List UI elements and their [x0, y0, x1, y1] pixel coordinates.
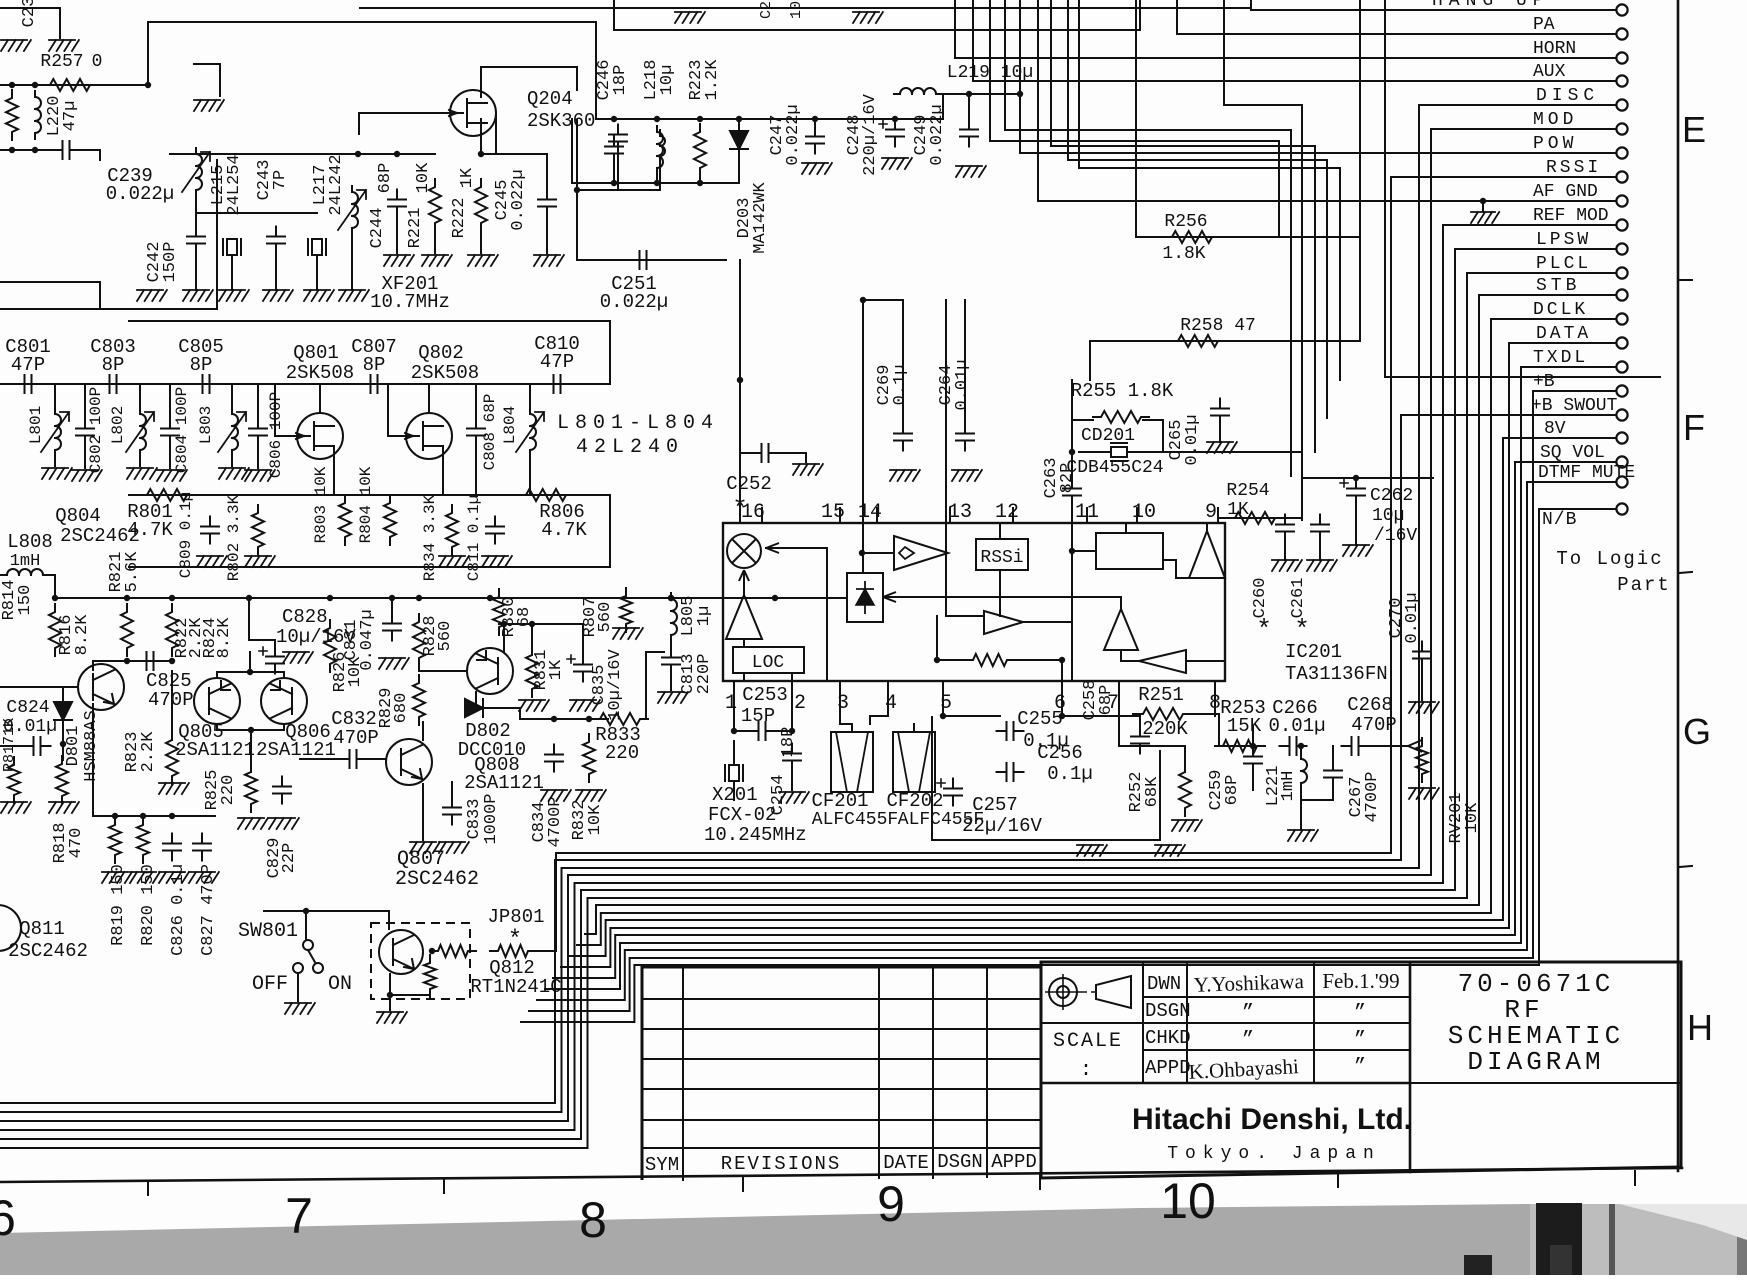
ground top box 1	[675, 12, 705, 23]
ground lowleft 172	[159, 872, 189, 883]
white wedge right	[1620, 1204, 1747, 1240]
wire L803 stub	[231, 384, 233, 412]
ground lowleft 143	[130, 872, 160, 883]
border tick bottom 7-8	[443, 1179, 445, 1193]
wire c253 left	[734, 730, 752, 732]
wire l221 gnd	[1300, 800, 1302, 830]
svg-text:R834 3.3K: R834 3.3K	[421, 494, 439, 581]
svg-text:DSGN: DSGN	[1145, 1000, 1191, 1022]
inductor L220	[35, 91, 41, 139]
svg-text:DTMF MUTE: DTMF MUTE	[1538, 463, 1635, 483]
svg-text:10µ/16V: 10µ/16V	[606, 649, 625, 721]
resistor R253	[1215, 740, 1265, 752]
wire C249 stub	[968, 94, 970, 124]
svg-text:2: 2	[794, 692, 806, 715]
resistor R819	[109, 817, 121, 863]
bus vertical 8V	[1502, 438, 1504, 920]
svg-text:Q801: Q801	[293, 342, 339, 364]
IC201 top pin stub x1013	[1012, 508, 1014, 523]
wire C828 top	[249, 598, 275, 650]
wire L802 stub	[139, 384, 141, 412]
svg-text:TXDL: TXDL	[1533, 348, 1588, 368]
ground L802	[127, 468, 157, 479]
svg-text:*: *	[1256, 615, 1272, 645]
junction C248	[892, 116, 898, 122]
wire q812 bottom	[390, 974, 430, 995]
box R80x bottom	[129, 566, 610, 568]
resistor R820	[137, 817, 149, 863]
wire PA	[1177, 33, 1615, 35]
wire C833 top	[451, 782, 453, 801]
svg-text:0.01µ: 0.01µ	[1268, 715, 1325, 737]
junction L220 low a	[9, 147, 15, 153]
svg-text:+B: +B	[1533, 372, 1555, 392]
title block title cell divider	[1410, 1082, 1681, 1084]
svg-text:C804 100P: C804 100P	[173, 387, 191, 473]
capacitor C813	[662, 648, 680, 675]
wire cap254b v	[1319, 517, 1321, 519]
svg-text:C824: C824	[6, 698, 49, 718]
ground C262	[1343, 545, 1373, 556]
ground C270	[1409, 702, 1439, 713]
svg-text:10.245MHz: 10.245MHz	[704, 824, 807, 846]
wire DATA horiz	[1509, 342, 1615, 344]
junction rail d	[736, 116, 742, 122]
capacitor C266	[1280, 737, 1307, 755]
terminal TXDL	[1616, 361, 1627, 372]
ground C828	[283, 652, 313, 663]
wire CD201 wires	[1079, 451, 1109, 453]
capacitor C246	[605, 137, 623, 164]
terminal 8V	[1616, 432, 1627, 443]
svg-text:18P: 18P	[611, 65, 630, 96]
bus vertical DCLK	[1490, 319, 1492, 913]
wire Q807 collector	[422, 722, 424, 740]
wire C252 up	[739, 380, 741, 453]
svg-text:HORN: HORN	[1533, 39, 1576, 59]
wire Q805-Q806 bot	[217, 724, 284, 730]
wire R257 to top rail	[148, 22, 596, 85]
IC201 top pin stub x840	[839, 508, 841, 523]
capacitor C831	[383, 614, 401, 641]
bus fan line jp801	[556, 853, 1391, 951]
ground R252	[1155, 845, 1185, 856]
terminal STB	[1616, 289, 1627, 300]
wire nb in	[1186, 660, 1225, 662]
wire r252 v	[1184, 746, 1186, 772]
resistor R824	[166, 604, 178, 656]
terminal PA	[1616, 28, 1627, 39]
resistor R257	[42, 79, 98, 91]
title block h row dwn	[1143, 996, 1410, 998]
wire c267 link	[1301, 783, 1333, 800]
wire C252 left	[740, 452, 755, 454]
border tick bottom 8-9	[742, 1177, 744, 1191]
svg-text:To Logic: To Logic	[1556, 548, 1663, 570]
resistor R833	[592, 713, 648, 725]
diode D801	[54, 702, 72, 720]
svg-text:Q802: Q802	[418, 342, 464, 364]
wire CF202 in	[913, 724, 915, 732]
wire c258 v	[1139, 716, 1141, 730]
svg-text:C261: C261	[1289, 578, 1308, 619]
ground R817	[1, 802, 31, 813]
wire C262 d	[1355, 502, 1357, 545]
IC201 quad block	[1096, 533, 1163, 569]
capacitor C809	[201, 517, 219, 544]
wire top rail down	[595, 22, 597, 119]
border tick bottom 9-10	[1039, 1175, 1041, 1189]
bus fan line +B SWOUT	[0, 860, 1401, 1103]
wire C252 right	[775, 453, 806, 462]
junction lower rail b	[654, 180, 660, 186]
svg-text:470P: 470P	[333, 727, 379, 749]
capacitor C833	[443, 798, 461, 825]
LOC box	[733, 647, 804, 673]
junction det in	[859, 550, 865, 556]
svg-text:10.7MHz: 10.7MHz	[370, 291, 450, 313]
svg-text:Part: Part	[1617, 574, 1671, 596]
svg-text:1K: 1K	[458, 167, 477, 188]
junction fb a	[934, 657, 940, 663]
wire audio in step	[946, 523, 984, 616]
resistor R806	[518, 489, 574, 501]
scanner artifact dark square	[1464, 1255, 1492, 1275]
capacitor cap254a	[1276, 515, 1294, 542]
svg-text:Feb.1.'99: Feb.1.'99	[1322, 969, 1399, 993]
junction C269	[860, 297, 866, 303]
wire TXDL horiz	[1521, 366, 1615, 368]
wire R255 right	[1143, 419, 1163, 421]
capacitor C804	[161, 419, 179, 446]
svg-text:C262: C262	[1370, 486, 1413, 506]
ground C834	[541, 790, 571, 801]
wire xf to C244	[358, 153, 435, 155]
svg-text:4700P: 4700P	[1363, 771, 1382, 822]
ground R823	[159, 783, 189, 794]
svg-text:1mH: 1mH	[1279, 771, 1298, 802]
wire pin5 row	[943, 715, 1000, 717]
title block h row appd	[1041, 1082, 1410, 1085]
junction amp rail x330	[327, 595, 333, 601]
svg-text:220: 220	[219, 775, 238, 806]
ground xf a	[219, 290, 249, 301]
svg-text::: :	[1080, 1059, 1092, 1082]
wire xf stub a	[231, 255, 233, 290]
wire SQ VOL horiz	[1515, 461, 1615, 463]
svg-text:15K: 15K	[1227, 715, 1262, 737]
mixer arrowhead	[766, 543, 779, 553]
wire JP801 out	[533, 950, 556, 952]
svg-text:15P: 15P	[741, 705, 775, 727]
wire limiter drop	[1120, 597, 1122, 609]
amp noise triangle	[1104, 609, 1138, 650]
wire Q204 gate stub	[358, 113, 360, 134]
wire R258 drop	[1089, 341, 1091, 380]
wire pin12 inner	[999, 523, 1001, 539]
rev table col sym	[682, 967, 684, 1180]
wire Q204 drain box	[481, 67, 577, 97]
svg-text:8.2K: 8.2K	[215, 617, 234, 659]
wire q804 collector	[92, 661, 94, 670]
wire C806 stub	[257, 384, 259, 422]
ground xf left	[137, 290, 167, 301]
svg-text:C252: C252	[726, 473, 772, 495]
wire STB horiz	[1479, 294, 1615, 296]
scanner gray band at bottom	[0, 1204, 1747, 1275]
capacitor C270	[1413, 642, 1431, 669]
ground L221	[1288, 830, 1318, 841]
wire left lower	[0, 282, 100, 309]
capacitor C834	[545, 745, 563, 772]
svg-text:47P: 47P	[11, 354, 45, 376]
ground C833	[439, 842, 469, 853]
top bus elbow d	[1068, 0, 1327, 418]
svg-text:15: 15	[821, 501, 845, 524]
svg-text:”: ”	[1354, 1002, 1366, 1025]
wire L801 gnd	[54, 452, 56, 466]
wire rssi down	[999, 570, 1001, 616]
junction lower rail c	[697, 180, 703, 186]
ground Q807	[410, 842, 440, 853]
svg-text:2SK360: 2SK360	[527, 110, 595, 132]
bus vertical TXDL	[1520, 367, 1522, 943]
svg-text:2SA1121: 2SA1121	[175, 739, 255, 761]
svg-text:10K: 10K	[1463, 802, 1482, 833]
wire N/B horiz	[1539, 508, 1615, 510]
svg-text:ALFC455F: ALFC455F	[812, 810, 898, 830]
junction R222	[478, 151, 484, 157]
wire pin16 up	[739, 260, 741, 523]
ground Q812	[377, 1012, 407, 1023]
wire quad to if	[1163, 560, 1189, 578]
wire Q801 gate in	[275, 384, 297, 436]
svg-text:0.022µ: 0.022µ	[784, 104, 803, 165]
svg-text:Tokyo. Japan: Tokyo. Japan	[1167, 1144, 1381, 1164]
top bus elbow e	[1079, 0, 1340, 380]
terminal +B	[1616, 385, 1627, 396]
wire Q801 drain	[319, 384, 321, 413]
wire R223 stub	[699, 172, 701, 183]
svg-text:CD201: CD201	[1081, 426, 1135, 446]
resistor R256	[1164, 231, 1220, 243]
wire R257 rail	[0, 84, 148, 86]
svg-text:10µ: 10µ	[658, 65, 677, 96]
svg-text:2SK508: 2SK508	[286, 362, 354, 384]
svg-text:1µ: 1µ	[695, 606, 714, 626]
wire R833 out	[643, 652, 664, 719]
capacitor C252	[752, 444, 779, 462]
resistor R-left	[6, 90, 18, 140]
svg-text:10µ: 10µ	[1372, 506, 1404, 526]
terminal N/B	[1616, 503, 1627, 514]
resistor R252	[1179, 764, 1191, 816]
wire C246 rail	[596, 118, 943, 120]
wire chain box right	[609, 321, 611, 384]
wire amp rail	[55, 597, 847, 599]
ground xf d	[339, 290, 369, 301]
junction r832 row	[586, 716, 592, 722]
svg-text:C256: C256	[1037, 742, 1083, 764]
rev table row 5	[642, 1119, 1041, 1121]
transistor Q801	[296, 413, 343, 459]
wire if apex	[1206, 523, 1208, 531]
svg-text:13: 13	[948, 501, 972, 524]
svg-text:9: 9	[1205, 501, 1217, 524]
svg-text:”: ”	[1354, 1029, 1366, 1052]
capacitor C827	[193, 834, 211, 861]
wire fb a up	[936, 616, 938, 660]
ground lowleft 202	[189, 872, 219, 883]
ground C247	[802, 163, 832, 174]
svg-text:LOC: LOC	[752, 653, 785, 673]
transistor Q807	[386, 739, 432, 785]
wire L219 rail	[943, 93, 1020, 95]
bus vertical STB	[1478, 295, 1480, 905]
wire Q204 gate	[359, 112, 450, 114]
wire mixer arrow drop	[826, 548, 828, 681]
wire DTMF MUTE horiz	[1527, 481, 1615, 483]
svg-text:68K: 68K	[1143, 776, 1162, 807]
svg-text:C268: C268	[1347, 694, 1393, 716]
wire c259 d	[1252, 770, 1254, 790]
svg-text:150P: 150P	[161, 242, 180, 283]
wire L804 d	[529, 452, 531, 495]
IC201 top pin stub x762	[761, 508, 763, 523]
capacitor C267	[1324, 761, 1342, 788]
wire internal row2	[1015, 659, 1062, 661]
wire R221 stub	[434, 228, 436, 253]
svg-text:DCC010: DCC010	[458, 739, 526, 761]
wire Q802 gate in	[388, 384, 406, 436]
amp if triangle	[1189, 531, 1225, 578]
wire q804 base	[0, 686, 78, 688]
svg-text:FCX-02: FCX-02	[708, 804, 776, 826]
svg-text:0.01µ: 0.01µ	[1183, 414, 1202, 465]
svg-text:Q804: Q804	[55, 505, 101, 527]
wire C263 d	[1071, 502, 1073, 523]
bus fan line REF MOD	[0, 883, 1443, 1130]
wire RSSI horiz	[1391, 176, 1615, 178]
bus vertical MOD	[1430, 129, 1432, 875]
ceramic filter CF202	[893, 732, 935, 792]
resistor R255	[1093, 411, 1149, 423]
capacitor C255	[997, 722, 1024, 740]
wire DCLK horiz	[1491, 318, 1615, 320]
svg-text:Y.Yoshikawa: Y.Yoshikawa	[1193, 969, 1305, 997]
wire L808 to rail	[43, 575, 55, 598]
wire quad link	[1072, 550, 1096, 552]
bus fan line DTMF MUTE	[537, 950, 1527, 1000]
svg-text:C23: C23	[20, 0, 39, 27]
svg-text:8P: 8P	[190, 354, 213, 376]
wire L803 gnd	[231, 452, 233, 466]
bus vertical DATA	[1508, 343, 1510, 928]
wire R830 top	[498, 597, 500, 598]
svg-text:D801: D801	[64, 726, 83, 767]
svg-text:F: F	[1683, 407, 1705, 448]
svg-text:C257: C257	[972, 794, 1018, 816]
wire sw gnd stub	[297, 973, 299, 1001]
wire C251 drop	[576, 190, 578, 260]
title block bottom edge	[1041, 1167, 1681, 1178]
ground C804	[157, 470, 187, 481]
title block v line date/title	[1409, 962, 1412, 1172]
wire POW feed	[1019, 0, 1021, 153]
IC201 bottom pin stub x943	[942, 681, 944, 716]
svg-text:R8171K: R8171K	[1, 718, 18, 772]
terminal AF GND	[1616, 195, 1627, 206]
bus fan line +B	[529, 958, 1533, 1011]
svg-text:10: 10	[1132, 501, 1156, 524]
wire Q204 source	[495, 113, 497, 154]
svg-text:C828: C828	[282, 606, 328, 628]
rev table row 4	[642, 1088, 1041, 1090]
transistor Q812	[379, 930, 423, 974]
rev table col dsgn	[986, 967, 988, 1177]
svg-text:C260: C260	[1251, 578, 1270, 619]
capacitor C808	[467, 419, 485, 446]
svg-text:10K: 10K	[414, 162, 433, 193]
junction C249	[966, 91, 972, 97]
capacitor C801	[15, 375, 42, 393]
bus vertical DTMF MUTE	[1526, 482, 1528, 950]
junction pin11 t	[1069, 449, 1075, 455]
ground AF GND	[1471, 212, 1499, 223]
bus fan line SQ VOL	[553, 935, 1515, 978]
wire loc pin1	[743, 673, 745, 681]
svg-text:R256: R256	[1164, 212, 1207, 232]
svg-text:10: 10	[788, 1, 805, 19]
capacitor C832	[340, 750, 367, 768]
svg-text:0: 0	[92, 52, 103, 72]
wire MOD horiz	[1431, 128, 1615, 130]
terminal PLCL	[1616, 267, 1627, 278]
wire POW	[1020, 152, 1615, 154]
svg-text:12: 12	[995, 501, 1019, 524]
wire Q808 base row	[419, 662, 467, 671]
bus vertical LPSW	[1454, 249, 1456, 890]
wire +B SWOUT horiz	[1401, 414, 1615, 416]
svg-text:R221: R221	[406, 208, 425, 249]
capacitor C824	[24, 737, 51, 755]
svg-text:C826 0.1µ: C826 0.1µ	[169, 864, 188, 956]
wire C242 v	[195, 196, 197, 230]
junction sw	[303, 908, 309, 914]
wire lowleft drop	[92, 704, 94, 816]
ground C242	[183, 290, 213, 301]
svg-text:R803 10K: R803 10K	[312, 466, 330, 543]
svg-text:2SC2462: 2SC2462	[60, 525, 140, 547]
svg-text:0.01µ: 0.01µ	[1403, 592, 1422, 643]
wire loc pin2	[791, 673, 793, 681]
svg-text:L801: L801	[27, 406, 45, 444]
wire L805 top link	[670, 598, 672, 599]
capacitor C262	[1340, 479, 1365, 506]
wire Q802 drain	[428, 384, 430, 413]
box left area right edge	[216, 160, 218, 309]
svg-text:RT1N241C: RT1N241C	[470, 976, 561, 998]
wire chain rail	[0, 383, 610, 385]
capacitor C243	[267, 227, 285, 254]
ground C802	[72, 470, 102, 481]
ground C269	[890, 470, 920, 481]
ground C257 box	[1077, 845, 1107, 856]
title block v line labels/sign	[1186, 962, 1188, 1083]
svg-text:1000P: 1000P	[482, 793, 501, 844]
transistor Q804 sym	[78, 664, 124, 710]
resistor IC internal	[965, 654, 1015, 666]
